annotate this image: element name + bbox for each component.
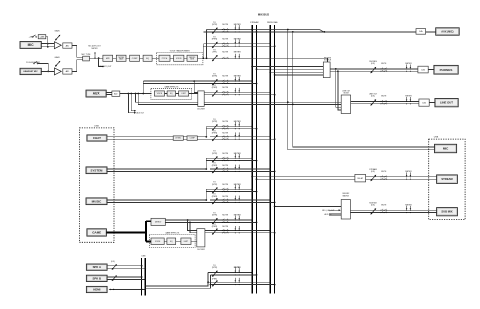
junction aux line out feed L xyxy=(135,93,137,95)
D/A converter line out xyxy=(419,99,429,106)
channel SYSTEM to-personal fader row xyxy=(210,163,276,174)
junction mic row1 branch xyxy=(206,57,208,59)
svg-text:METER: METER xyxy=(234,76,242,78)
A/D converter headset xyxy=(63,69,72,74)
channel AUX to-personal fader row xyxy=(204,85,275,97)
A/D converter aux xyxy=(112,91,120,96)
D/A converter aux mic xyxy=(416,29,426,35)
wire line out pair xyxy=(351,100,419,102)
wire phones out pair xyxy=(330,68,418,70)
svg-text:DIRECT: DIRECT xyxy=(155,222,163,224)
channel MIC phones-feed fader row xyxy=(212,50,241,62)
meter stream xyxy=(406,172,411,179)
label mic out meter xyxy=(88,46,100,50)
block NOISE GATE xyxy=(116,55,126,61)
svg-text:SPK A: SPK A xyxy=(93,265,101,269)
junction aux row1 branch xyxy=(142,93,144,95)
block PITCH xyxy=(159,55,170,61)
svg-text:GAIN: GAIN xyxy=(55,56,60,59)
wire xyxy=(184,57,187,59)
wire chat row1 riser xyxy=(205,126,207,137)
wire xyxy=(176,93,179,95)
junction aux out stub L xyxy=(127,93,129,95)
meter line out xyxy=(406,97,411,104)
block DEFORMER xyxy=(187,55,198,61)
block DELAY xyxy=(355,174,366,182)
svg-text:MUTE: MUTE xyxy=(222,87,228,89)
channel MUSIC to-personal fader row xyxy=(210,194,276,205)
svg-text:(STR): (STR) xyxy=(212,215,218,217)
block aux LIMIT xyxy=(179,91,189,96)
svg-text:MUTE: MUTE xyxy=(222,165,228,167)
wire hdmi return xyxy=(110,288,145,290)
wire mic cold xyxy=(41,46,54,48)
svg-text:DUCKER: DUCKER xyxy=(197,249,205,251)
label sub mix matrix xyxy=(342,193,350,197)
svg-text:METER: METER xyxy=(92,48,99,50)
svg-text:A/D: A/D xyxy=(114,92,118,95)
junction mic row2 branch xyxy=(202,57,204,59)
svg-text:CH SEL: CH SEL xyxy=(175,138,181,140)
wire spk b pair xyxy=(107,276,142,278)
svg-text:VOICE: VOICE xyxy=(176,58,182,60)
svg-text:(LVL): (LVL) xyxy=(111,261,115,263)
op-amp headset head amp xyxy=(54,68,61,75)
svg-text:MIC: MIC xyxy=(28,43,35,47)
svg-text:LINE OUT: LINE OUT xyxy=(440,101,453,105)
junction system row1 branch xyxy=(205,168,207,170)
mute switch line out xyxy=(380,100,387,104)
svg-text:METER: METER xyxy=(234,184,242,186)
svg-text:VOICE TRANSFORMER: VOICE TRANSFORMER xyxy=(170,49,191,52)
svg-text:LIMIT: LIMIT xyxy=(181,93,185,95)
connector STREAM usb output xyxy=(437,175,458,184)
svg-text:MUSIC: MUSIC xyxy=(92,199,103,203)
block USB frame left xyxy=(79,128,114,242)
mute switch sub mix xyxy=(380,209,387,213)
wire game direct out xyxy=(165,219,206,221)
svg-text:MUTE: MUTE xyxy=(381,171,387,173)
wire xyxy=(113,57,117,59)
block DUCKER aux xyxy=(198,91,204,107)
block game COMP xyxy=(167,238,176,245)
channel CHAT to-personal fader row xyxy=(210,131,276,142)
svg-text:(PH): (PH) xyxy=(212,52,216,54)
svg-text:MUTE: MUTE xyxy=(381,95,387,97)
wire aux to line out R xyxy=(138,94,341,105)
phantom supply box xyxy=(38,35,46,39)
connector AUX (MIC) output xyxy=(436,28,460,35)
svg-text:VOICE: VOICE xyxy=(157,93,163,95)
svg-text:A/D: A/D xyxy=(66,44,70,47)
svg-text:MUTE: MUTE xyxy=(222,196,228,198)
wire phones to line out mode L xyxy=(336,69,341,107)
bus STREAM R xyxy=(256,25,258,294)
wire system row1 riser xyxy=(205,158,207,169)
svg-text:MUTE: MUTE xyxy=(222,52,228,54)
channel SYSTEM to-stream fader row xyxy=(206,151,257,163)
wire phones tap stream R xyxy=(257,68,324,70)
wire aux row1 riser xyxy=(142,81,144,93)
svg-text:DELAY: DELAY xyxy=(357,177,364,180)
svg-text:(LVL): (LVL) xyxy=(371,63,376,65)
mute switch phones xyxy=(380,68,387,72)
block game direct xyxy=(151,218,165,225)
svg-text:MIX BUS: MIX BUS xyxy=(258,12,269,16)
junction phones line R xyxy=(337,70,339,72)
svg-text:METER: METER xyxy=(234,215,242,217)
connector SYSTEM input xyxy=(86,167,107,174)
svg-text:(STR): (STR) xyxy=(212,153,218,155)
fader spk b xyxy=(112,275,117,281)
wire aux to line out L xyxy=(136,94,342,103)
svg-text:AUX OUT: AUX OUT xyxy=(137,112,145,115)
connector MIC usb output xyxy=(435,144,457,152)
junction line row2 R xyxy=(210,284,212,286)
svg-text:(LVL): (LVL) xyxy=(371,171,376,173)
block aux COMP xyxy=(167,91,176,96)
connector MUSIC input xyxy=(86,198,107,205)
junction mic join line out R xyxy=(292,104,294,106)
svg-text:AUX (MIC): AUX (MIC) xyxy=(441,30,453,33)
svg-text:(PER): (PER) xyxy=(212,38,218,40)
svg-text:(PER): (PER) xyxy=(212,87,218,89)
mute switch stream xyxy=(380,176,387,180)
phantom power switch xyxy=(32,35,37,38)
bus speaker feed L xyxy=(141,258,143,296)
svg-text:(PER): (PER) xyxy=(212,133,218,135)
svg-text:HDMI: HDMI xyxy=(93,288,100,292)
channel MUSIC to-stream fader row xyxy=(206,182,257,194)
wire aux to a/d xyxy=(106,91,112,93)
block VOICE xyxy=(174,55,184,61)
wire mic type out xyxy=(89,57,103,59)
svg-text:METER: METER xyxy=(234,38,242,40)
svg-text:METER: METER xyxy=(405,63,412,65)
svg-text:SYSTEM: SYSTEM xyxy=(91,168,103,172)
svg-text:(STR): (STR) xyxy=(212,184,218,186)
svg-text:STREAM: STREAM xyxy=(250,21,259,24)
fader line out level xyxy=(369,93,378,105)
svg-text:COMP: COMP xyxy=(132,58,138,60)
junction mic usb branch xyxy=(292,31,294,33)
wire xyxy=(429,102,435,104)
svg-text:(LVL): (LVL) xyxy=(371,204,376,206)
wire aux out stub L xyxy=(131,94,134,111)
wire sub mix pair xyxy=(350,209,436,211)
fader spk a xyxy=(112,264,117,270)
svg-text:(STR): (STR) xyxy=(212,121,218,123)
plug-in power switch xyxy=(33,62,38,65)
wire music pair xyxy=(107,199,206,201)
svg-text:GAME EFFECTS: GAME EFFECTS xyxy=(164,85,179,88)
svg-text:COMP: COMP xyxy=(190,138,196,140)
block COMP xyxy=(130,55,140,61)
svg-text:(STR): (STR) xyxy=(212,76,218,78)
block SUB MIX MATRIX xyxy=(341,200,350,220)
channel GAME to-personal fader row xyxy=(205,224,276,235)
wire phones to line out mode R xyxy=(338,71,341,110)
svg-text:MUTE: MUTE xyxy=(222,38,228,40)
svg-text:METER: METER xyxy=(234,24,242,26)
svg-text:(PER): (PER) xyxy=(212,196,218,198)
svg-text:SUB MIX: SUB MIX xyxy=(441,210,452,214)
wire mic row1 riser xyxy=(206,30,208,59)
junction plug-in power xyxy=(47,71,49,73)
wire personal bus to sub mix matrix xyxy=(275,205,342,207)
svg-text:MUTE: MUTE xyxy=(381,204,387,206)
selector LINE OUT MODE xyxy=(341,95,350,114)
channel MIC to-stream fader row xyxy=(203,22,416,34)
junction hdmi xyxy=(113,289,114,290)
svg-text:PHONES: PHONES xyxy=(440,68,453,72)
svg-text:PITCH: PITCH xyxy=(162,58,168,60)
svg-text:MUTE: MUTE xyxy=(381,63,387,65)
junction mic dry out xyxy=(98,57,100,59)
meter arrow mic out xyxy=(94,52,96,59)
wire headset a/d to mic type xyxy=(72,60,83,72)
connector SPK B output xyxy=(86,275,107,281)
wire mic main to phones source xyxy=(198,58,328,62)
svg-text:GAME EFFECTS: GAME EFFECTS xyxy=(165,232,180,235)
svg-text:(STR): (STR) xyxy=(212,267,218,269)
wire xyxy=(176,240,181,242)
wire chat to rows xyxy=(197,136,206,138)
block GAME EFFECTS frame aux xyxy=(151,88,192,99)
wire game ducker tap L xyxy=(188,220,197,230)
D/A converter phones xyxy=(418,66,428,73)
wire xyxy=(164,240,167,242)
wire mic a/d to mic type xyxy=(72,46,83,58)
meter sub mix xyxy=(406,206,411,213)
selector PHONES SOURCE xyxy=(323,62,330,78)
svg-text:MIC TYPE: MIC TYPE xyxy=(82,54,92,56)
svg-text:CHAT: CHAT xyxy=(93,136,101,140)
label line out mode xyxy=(342,90,350,94)
channel CHAT to-stream fader row xyxy=(206,119,257,131)
bus PERSONAL R xyxy=(274,25,276,294)
connector GAME input xyxy=(87,229,107,236)
wire system pair xyxy=(107,168,206,170)
wire headset mic xyxy=(41,70,54,72)
channel LINE to-personal fader row xyxy=(208,278,275,287)
op-amp mic head amp xyxy=(54,42,61,49)
svg-text:MUTE: MUTE xyxy=(222,153,228,155)
junction music row1 branch xyxy=(205,199,207,201)
selector MIC TYPE xyxy=(83,56,90,61)
svg-text:METER: METER xyxy=(234,121,242,123)
svg-text:SOURCE: SOURCE xyxy=(324,60,332,62)
connector PHONES output xyxy=(434,65,458,74)
wire game ducker tap R xyxy=(190,222,197,232)
wire xyxy=(428,69,434,71)
block game LIMIT xyxy=(181,238,191,245)
wire mic wet vertical xyxy=(293,32,435,147)
svg-text:MUTE: MUTE xyxy=(222,184,228,186)
fader sub mix level xyxy=(369,202,377,214)
svg-text:METER: METER xyxy=(405,95,412,97)
svg-text:(PER): (PER) xyxy=(212,279,217,281)
gain knob mic xyxy=(55,35,60,41)
wire mic dry out branch xyxy=(99,58,103,66)
junction game ducker tap L xyxy=(187,219,189,221)
svg-text:LIMIT: LIMIT xyxy=(184,241,188,243)
junction chat row1 branch xyxy=(205,136,207,138)
junction line row2 L xyxy=(207,281,209,283)
block aux EQ xyxy=(154,91,164,96)
wire phones tap stream L xyxy=(252,66,323,68)
junction mic join line out L xyxy=(287,101,289,103)
meter phones xyxy=(406,65,411,72)
block game EQ xyxy=(151,238,164,245)
wire xyxy=(165,93,168,95)
wire xyxy=(152,57,159,59)
block chat voice ch xyxy=(173,136,183,140)
channel GAME to-stream fader row xyxy=(207,213,258,225)
wire plug-in power to headset line xyxy=(38,63,49,71)
wire phones tap personal R xyxy=(275,74,324,76)
connector LINE OUT output xyxy=(435,99,458,107)
junction phones line L xyxy=(335,68,337,70)
wire chat pair xyxy=(107,136,173,138)
channel LINE to-stream fader row xyxy=(208,265,257,277)
wire phones tap personal L xyxy=(270,71,323,73)
svg-text:AUX: AUX xyxy=(93,92,101,96)
fader stream level xyxy=(369,168,377,181)
svg-text:MUTE: MUTE xyxy=(222,226,228,228)
label phones source xyxy=(324,58,332,62)
junction game ducker tap R xyxy=(189,222,191,224)
junction phantom cold xyxy=(47,46,49,48)
svg-text:MATRIX: MATRIX xyxy=(343,194,350,197)
svg-text:SPK B: SPK B xyxy=(93,276,102,280)
wire xyxy=(126,57,130,59)
svg-text:METER: METER xyxy=(234,52,242,54)
block VOICE TRANSFORMER frame xyxy=(157,52,203,64)
block EQ xyxy=(143,55,152,61)
wire xyxy=(183,136,187,138)
wire line feed pair xyxy=(145,273,208,286)
wire sub mix in 2 xyxy=(329,213,341,215)
svg-text:VOICE: VOICE xyxy=(155,241,161,243)
connector CHAT input xyxy=(87,135,107,141)
svg-text:MIC: MIC xyxy=(443,147,449,151)
wire mic dry vertical xyxy=(288,30,435,150)
svg-text:MUTE: MUTE xyxy=(235,267,241,269)
junction aux line out feed R xyxy=(137,93,139,95)
svg-text:+48 V: +48 V xyxy=(29,37,35,39)
connector AUX input xyxy=(86,90,106,97)
wire sub mix in 3 xyxy=(329,215,341,217)
svg-text:(STR): (STR) xyxy=(212,24,218,26)
svg-text:MUTE: MUTE xyxy=(222,76,228,78)
wire xyxy=(366,176,437,178)
svg-text:STREAM: STREAM xyxy=(441,177,453,181)
svg-text:METER: METER xyxy=(234,153,242,155)
svg-text:METER: METER xyxy=(405,204,412,206)
wire spk a pair xyxy=(107,265,142,267)
bus STREAM L xyxy=(251,25,253,294)
svg-text:MODE: MODE xyxy=(344,92,350,94)
svg-text:A/D: A/D xyxy=(66,70,70,73)
wire game bottom branch thick xyxy=(146,241,151,243)
wire mic hot xyxy=(41,43,54,45)
svg-text:USB: USB xyxy=(94,126,99,128)
junction phantom hot xyxy=(47,43,49,45)
wire game top branch thick xyxy=(146,220,151,222)
svg-text:MUTE: MUTE xyxy=(222,24,228,26)
junction aux out stub R xyxy=(130,93,132,95)
wire aux into ducker xyxy=(189,93,198,95)
wire game feed thick xyxy=(106,231,146,233)
wire xyxy=(140,57,144,59)
wire game riser thick xyxy=(145,221,147,241)
wire sub mix in 1 xyxy=(329,209,338,211)
block HPF xyxy=(103,55,113,61)
wire music row1 riser xyxy=(205,189,207,200)
svg-text:(PER): (PER) xyxy=(212,226,218,228)
channel MIC to-personal fader row xyxy=(203,36,275,48)
gain knob headset xyxy=(55,61,60,67)
svg-text:MIC (DRY) OUT: MIC (DRY) OUT xyxy=(99,66,111,68)
svg-text:(LVL): (LVL) xyxy=(371,95,376,97)
svg-text:METER: METER xyxy=(405,171,412,173)
wire stream usb pair xyxy=(252,176,355,178)
bus PERSONAL L xyxy=(269,25,271,294)
wire game into ducker xyxy=(191,240,197,242)
connector HEADSET MIC input xyxy=(20,68,41,74)
svg-text:USB: USB xyxy=(434,137,439,139)
wire aux out stub R xyxy=(128,94,134,113)
svg-text:GAME: GAME xyxy=(92,231,101,235)
wire phantom to mic line xyxy=(46,37,48,47)
block USB frame right xyxy=(429,139,465,220)
channel AUX to-stream fader row xyxy=(143,74,257,93)
svg-text:HEADSET MIC: HEADSET MIC xyxy=(23,70,38,73)
wire mic row2 riser xyxy=(202,44,204,58)
fader phones level xyxy=(369,61,377,73)
svg-text:(PER): (PER) xyxy=(212,165,218,167)
svg-text:MUTE: MUTE xyxy=(222,121,228,123)
block DUCKER game xyxy=(197,229,205,247)
wire xyxy=(170,57,174,59)
bus speaker feed R xyxy=(144,258,146,296)
connector SPK A output xyxy=(86,264,107,270)
svg-text:MUTE: MUTE xyxy=(222,133,228,135)
svg-text:MUTE: MUTE xyxy=(222,215,228,217)
svg-text:PERSONAL: PERSONAL xyxy=(267,21,279,24)
wire xyxy=(426,31,436,33)
connector HDMI output xyxy=(86,286,107,292)
connector MIC input xyxy=(20,42,41,49)
wire aux main xyxy=(120,93,152,95)
block chat 4ch out xyxy=(187,136,197,140)
svg-text:DUCKER: DUCKER xyxy=(197,109,205,111)
svg-text:GAIN: GAIN xyxy=(55,30,60,33)
connector SUB MIX usb output xyxy=(437,208,458,216)
A/D converter mic xyxy=(63,43,72,48)
block GAME EFFECTS frame game xyxy=(149,234,195,247)
